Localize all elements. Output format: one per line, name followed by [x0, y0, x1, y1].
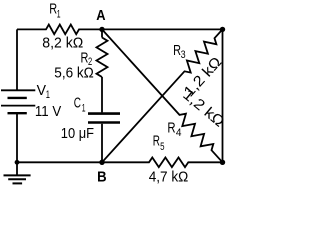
svg-text:5: 5 — [160, 141, 164, 153]
svg-text:C: C — [74, 96, 81, 112]
svg-text:B: B — [97, 168, 107, 185]
svg-text:4: 4 — [176, 127, 182, 139]
svg-text:1: 1 — [46, 89, 50, 101]
svg-text:3: 3 — [181, 49, 186, 61]
svg-text:R: R — [167, 120, 175, 136]
svg-text:R: R — [153, 133, 160, 149]
svg-text:1: 1 — [57, 9, 61, 21]
svg-text:1: 1 — [82, 103, 86, 115]
svg-text:5,6 kΩ: 5,6 kΩ — [54, 65, 94, 82]
svg-text:8,2 kΩ: 8,2 kΩ — [42, 35, 83, 52]
svg-text:10 μF: 10 μF — [61, 125, 94, 142]
svg-text:4,7 kΩ: 4,7 kΩ — [149, 169, 189, 186]
svg-text:A: A — [96, 7, 105, 24]
svg-text:11 V: 11 V — [35, 103, 61, 120]
